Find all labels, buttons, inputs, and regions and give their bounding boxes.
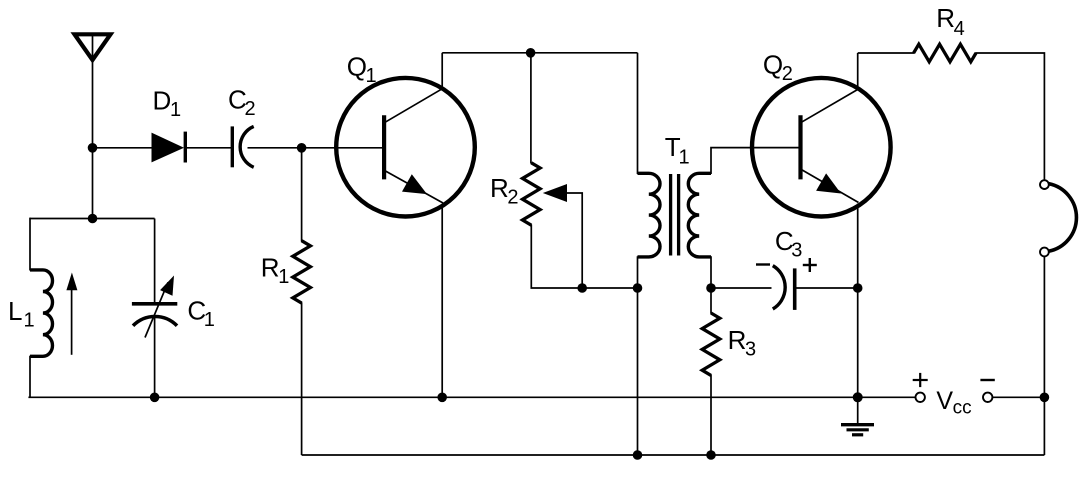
- wire Q2 collector up: [857, 53, 859, 89]
- wire transformer primary top lead: [637, 53, 639, 174]
- svg-text:R: R: [936, 3, 955, 33]
- wire D1 to C2: [186, 147, 231, 149]
- wire C3 right lead: [796, 287, 858, 289]
- svg-text:R: R: [261, 253, 280, 283]
- svg-text:D: D: [153, 86, 172, 116]
- svg-text:Q: Q: [763, 50, 783, 80]
- minus terminal: [980, 380, 994, 402]
- wire minus terminal to right vertical: [992, 396, 1044, 398]
- wire junction to D1 anode: [93, 147, 153, 149]
- capacitor C1 (variable): [132, 276, 177, 338]
- wire tank top: [30, 218, 155, 220]
- wire Q2 emitter down: [857, 204, 859, 398]
- wire R1 top lead: [301, 148, 303, 242]
- ground: [841, 397, 874, 435]
- capacitor C2: [232, 126, 253, 167]
- node earphone / minus terminal junction: [1040, 393, 1050, 403]
- node C1 bottom on ground rail: [150, 393, 160, 403]
- wire secondary bottom lead: [710, 256, 712, 314]
- node R2 top on rail: [526, 48, 536, 58]
- wire C2 to base node: [248, 147, 302, 149]
- svg-text:1: 1: [24, 310, 35, 332]
- earphone: [1040, 180, 1076, 256]
- wire earphone bottom down: [1043, 256, 1045, 455]
- resistor R3: [702, 313, 720, 375]
- resistor R4: [914, 44, 976, 62]
- wire Q1 collector up: [441, 53, 443, 88]
- capacitor C3 (electrolytic): [773, 266, 795, 310]
- transistor Q1: [336, 78, 475, 217]
- wire C3 left lead: [711, 287, 772, 289]
- node transformer primary bottom junction: [633, 283, 643, 293]
- inductor L1: [30, 270, 53, 356]
- wire R2 bottom lead: [531, 225, 637, 289]
- node secondary bottom / R3 / C3 junction: [706, 283, 716, 293]
- wire base node to Q1 base: [302, 147, 383, 149]
- wire R4 to earphone top: [975, 53, 1044, 180]
- node base/R1 junction: [297, 143, 307, 153]
- svg-text:2: 2: [507, 187, 518, 209]
- svg-text:3: 3: [745, 338, 756, 360]
- wire lower rail: [302, 454, 1045, 456]
- node wiper junction: [577, 283, 587, 293]
- C3 plus sign: [803, 258, 817, 272]
- wire top rail to R4: [858, 52, 915, 54]
- wire Q1 emitter down: [441, 204, 443, 397]
- resistor R1: [293, 241, 311, 303]
- svg-text:V: V: [936, 387, 953, 415]
- node C3 / Q2 emitter junction: [853, 283, 863, 293]
- plus terminal: [913, 373, 928, 402]
- diode D1: [152, 132, 186, 163]
- svg-text:L: L: [8, 296, 22, 326]
- transformer T1 primary winding: [638, 173, 661, 257]
- node R3 bottom on lower rail: [706, 450, 716, 460]
- transistor Q2: [752, 78, 891, 217]
- svg-text:2: 2: [782, 63, 793, 85]
- svg-text:3: 3: [791, 240, 802, 262]
- wire C1 top lead: [154, 219, 156, 303]
- wire R2 top lead: [530, 53, 532, 164]
- svg-text:1: 1: [278, 266, 289, 288]
- wire antenna lead down: [92, 64, 94, 219]
- node primary bottom on lower rail: [633, 450, 643, 460]
- svg-text:1: 1: [679, 147, 690, 169]
- wire secondary top to Q2 base: [711, 148, 799, 174]
- antenna: [75, 33, 111, 64]
- svg-text:1: 1: [366, 65, 377, 87]
- potentiometer R2: [523, 163, 541, 225]
- wire C1 bottom lead: [154, 318, 156, 397]
- C3 minus sign: [756, 263, 770, 265]
- node antenna/diode junction: [88, 143, 98, 153]
- svg-text:1: 1: [204, 309, 215, 331]
- svg-text:1: 1: [170, 99, 181, 121]
- transformer T1 core: [671, 174, 679, 256]
- svg-text:2: 2: [245, 98, 256, 120]
- svg-text:R: R: [728, 325, 747, 355]
- R2 wiper arrow: [543, 184, 582, 288]
- transformer T1 secondary winding: [688, 173, 711, 257]
- svg-text:R: R: [490, 173, 509, 203]
- wire R1 bottom lead to lower rail: [301, 302, 303, 455]
- L1 arrow: [66, 273, 77, 355]
- wire tank left upper: [29, 218, 31, 271]
- node ground symbol junction: [853, 392, 863, 402]
- wire main ground rail: [28, 396, 915, 398]
- svg-text:4: 4: [954, 18, 965, 40]
- wire R3 bottom lead to lower rail: [710, 375, 712, 455]
- svg-text:Q: Q: [347, 52, 367, 82]
- wire top rail: [442, 52, 637, 54]
- wire tank left lower: [29, 356, 31, 398]
- node Q1 emitter on ground rail: [437, 393, 447, 403]
- wire primary bottom to lower rail: [637, 256, 639, 455]
- svg-text:cc: cc: [953, 398, 972, 419]
- node tank top junction: [88, 214, 98, 224]
